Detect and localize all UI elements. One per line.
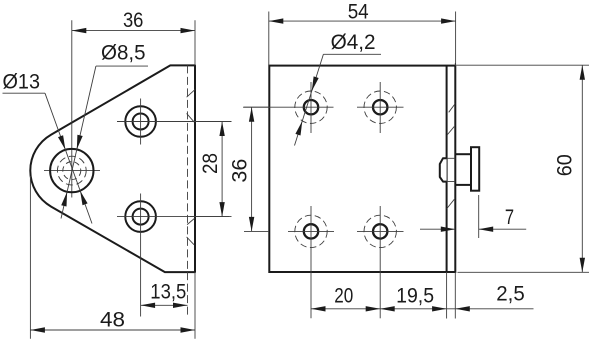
dim 60 extension lines bbox=[457, 65, 590, 272]
svg-text:Ø13: Ø13 bbox=[3, 70, 41, 94]
svg-text:7: 7 bbox=[505, 205, 514, 229]
svg-text:36: 36 bbox=[123, 8, 144, 32]
Ø8,5 leader line bbox=[61, 66, 148, 218]
dim 20 text bbox=[334, 284, 353, 308]
dim 36 top extension lines bbox=[194, 20, 196, 65]
stud head bbox=[471, 147, 479, 191]
Ø4,2 label bbox=[331, 30, 376, 54]
svg-text:Ø8,5: Ø8,5 bbox=[101, 40, 146, 64]
left view bracket outline bbox=[30, 65, 195, 272]
Ø13 leader line bbox=[3, 93, 93, 223]
dim 28 extension lines bbox=[190, 122, 229, 217]
dim 13,5 bbox=[141, 279, 188, 308]
dim 36 top bbox=[72, 8, 195, 34]
dim 28 bbox=[198, 122, 225, 217]
stud hidden lines through strip bbox=[447, 158, 456, 181]
svg-text:60: 60 bbox=[553, 154, 577, 176]
svg-text:2,5: 2,5 bbox=[496, 282, 525, 306]
big hole centerlines bbox=[44, 20, 100, 197]
Ø13 label bbox=[3, 70, 41, 94]
big hole Ø8,5 dashed circle bbox=[57, 156, 86, 185]
small hole 1 circles bbox=[125, 106, 156, 137]
dim 54 bbox=[269, 0, 456, 24]
hole upper-right Ø4,2 bbox=[364, 91, 396, 123]
holes centerlines bbox=[243, 82, 404, 318]
dim 36 vertical bbox=[227, 107, 254, 231]
dim 7 bbox=[420, 205, 526, 232]
dim 60 bbox=[553, 65, 585, 272]
svg-text:36: 36 bbox=[227, 159, 251, 183]
flange strip hatch marks bbox=[447, 104, 455, 209]
hole lower-left Ø4,2 bbox=[295, 215, 327, 247]
small hole 2 circles bbox=[125, 201, 156, 232]
svg-text:20: 20 bbox=[334, 284, 353, 308]
left view hidden line (inner face) bbox=[187, 65, 189, 316]
dim 19,5 text bbox=[396, 284, 434, 308]
small holes centerlines bbox=[117, 99, 232, 317]
right view flange bend line bbox=[446, 66, 448, 272]
dim 54 extension lines bbox=[269, 12, 456, 66]
svg-text:54: 54 bbox=[348, 0, 369, 23]
dim 48 extension lines bbox=[30, 176, 195, 339]
svg-text:19,5: 19,5 bbox=[396, 284, 434, 308]
right view plate rectangle bbox=[269, 66, 455, 272]
big hole Ø13 outer circle bbox=[50, 149, 93, 192]
svg-text:Ø4,2: Ø4,2 bbox=[331, 30, 376, 54]
Ø4,2 leader line bbox=[295, 54, 382, 145]
hole lower-right Ø4,2 bbox=[364, 215, 396, 247]
svg-text:48: 48 bbox=[100, 308, 125, 332]
strip line extensions bbox=[447, 63, 456, 319]
dim 7 extension line bbox=[478, 195, 480, 238]
dim 36 vertical extension lines bbox=[244, 107, 269, 231]
stud back bump bbox=[440, 158, 447, 181]
hole upper-left Ø4,2 bbox=[295, 91, 327, 123]
Ø8,5 label bbox=[101, 40, 146, 64]
dim 48 bbox=[30, 308, 195, 333]
svg-text:28: 28 bbox=[198, 153, 222, 174]
dim 20 / 19,5 / 2,5 line bbox=[311, 306, 534, 311]
dim 2,5 text bbox=[496, 282, 525, 306]
svg-text:13,5: 13,5 bbox=[150, 279, 186, 303]
big hole inner dashed circle bbox=[63, 162, 81, 180]
stud shaft bbox=[455, 154, 471, 185]
left view edge hatch marks bbox=[187, 90, 195, 245]
